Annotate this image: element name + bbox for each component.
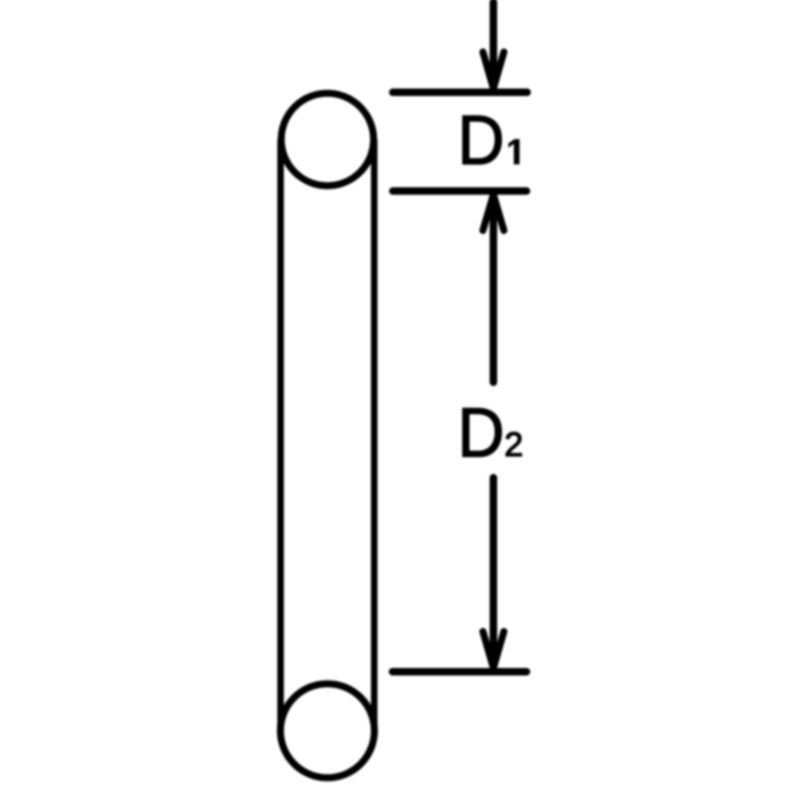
dimension tick line top of D1 bbox=[393, 89, 527, 97]
label D2 letter D bbox=[463, 408, 502, 456]
label D1 subscript 1 bbox=[509, 140, 519, 164]
label D2 subscript 2 bbox=[506, 432, 521, 456]
arrow pointing down to D1 top tick bbox=[483, 2, 504, 89]
o-ring right tangent wire bbox=[371, 139, 378, 730]
dimension tick line bottom of D1 / top of D2 bbox=[393, 187, 527, 195]
arrow pointing down to D2 bottom tick bbox=[483, 478, 504, 668]
dimension tick line bottom of D2 bbox=[393, 668, 527, 676]
o-ring left tangent wire bbox=[277, 139, 284, 730]
o-ring bottom cross-section circle bbox=[280, 684, 374, 778]
o-ring top cross-section circle bbox=[281, 93, 373, 185]
arrow pointing up to D1 bottom tick (start of D2 dimension) bbox=[483, 195, 504, 383]
label D1 letter D bbox=[463, 116, 502, 164]
